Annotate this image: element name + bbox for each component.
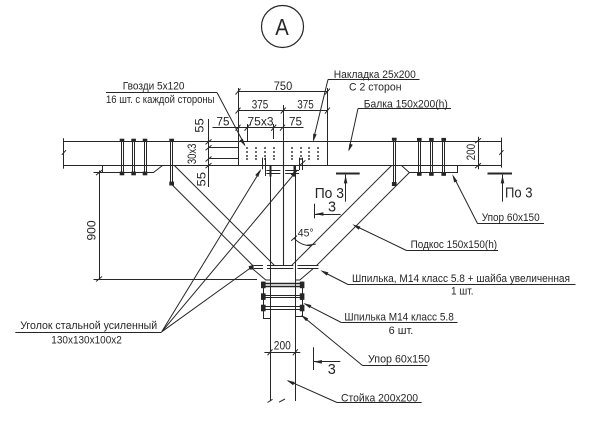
label beam arrow: [349, 144, 353, 152]
extension line at 247: [247, 124, 249, 141]
extension line at 238: [238, 88, 240, 141]
label beam underline: [358, 108, 451, 110]
label nails leader: [217, 93, 245, 145]
left beam bolt 2: [131, 139, 136, 176]
label nails arrow: [240, 139, 246, 147]
centre bolt pair left: [263, 158, 266, 176]
section mark Po3 left bar: [336, 173, 360, 175]
svg-text:30х3: 30х3: [185, 143, 199, 164]
45 degree tick at column edge: [291, 236, 297, 241]
dimension 75/75x3/75 line: [213, 125, 304, 131]
plate right edge: [327, 141, 329, 166]
section mark 3 upper arrow: [315, 212, 323, 216]
extension line at 273.7: [273, 124, 275, 139]
column left edge: [270, 166, 272, 401]
dimension 750 line: [236, 89, 330, 95]
label brace underline: [407, 250, 499, 252]
dimension 200 beam right line: [475, 137, 481, 170]
section mark 3 lower arrow: [314, 360, 322, 364]
label stop lower underline: [363, 365, 428, 367]
beam top line: [63, 141, 502, 143]
stud 2: [261, 293, 304, 300]
label studs underline: [341, 322, 457, 324]
steel angle horizontal leg right: [285, 171, 299, 174]
section mark 3 upper stem: [314, 204, 316, 219]
label brace leader: [355, 226, 407, 251]
beam right end line: [501, 138, 503, 168]
left pad slant: [253, 269, 271, 280]
45 degree tick at brace edge: [307, 244, 316, 245]
label column leader: [288, 381, 337, 403]
stud 1: [261, 282, 304, 289]
svg-text:Уголок стальной усиленный: Уголок стальной усиленный: [20, 320, 157, 332]
svg-text:Шпилька М14 класс 5.8: Шпилька М14 класс 5.8: [344, 311, 453, 323]
label stop lower arrow: [301, 315, 309, 322]
label stud washer leader: [323, 272, 349, 285]
svg-text:А: А: [275, 14, 289, 40]
label steel angle leader 2: [162, 171, 297, 332]
svg-text:200: 200: [464, 144, 478, 161]
extension line at 327: [327, 88, 329, 141]
section mark Po3 left arrow: [344, 175, 348, 183]
section mark Po3 right arrow: [501, 175, 505, 183]
label nails underline: [106, 92, 217, 94]
svg-text:Шпилька, М14 класс 5.8 + шайба: Шпилька, М14 класс 5.8 + шайба увеличенн…: [352, 273, 570, 285]
column right edge: [295, 166, 297, 401]
left beam bolt 3: [143, 139, 148, 176]
dimension 200 column line: [264, 349, 300, 355]
svg-text:Подкос 150х150(h): Подкос 150х150(h): [411, 239, 498, 251]
svg-text:75: 75: [217, 115, 230, 129]
label stud washer arrow: [320, 270, 328, 275]
section mark 3 lower line: [313, 361, 340, 363]
nails group right: [291, 147, 319, 160]
steel angle horizontal leg left: [266, 171, 280, 174]
label plate underline: [328, 79, 420, 81]
dimension 900 line: [94, 170, 258, 281]
svg-text:75х3: 75х3: [248, 115, 274, 129]
left stop block under beam: [103, 166, 163, 173]
label beam leader: [349, 109, 358, 151]
svg-text:6 шт.: 6 шт.: [389, 325, 414, 337]
svg-text:55: 55: [194, 172, 208, 187]
svg-text:130х130х100х2: 130х130х100х2: [51, 334, 122, 346]
stop angle line on column (lower): [254, 268, 319, 270]
beam bottom line: [63, 165, 502, 167]
centre bolt slash right: [300, 160, 305, 165]
svg-text:900: 900: [85, 220, 99, 240]
svg-text:3: 3: [328, 200, 336, 216]
svg-text:375: 375: [252, 97, 269, 111]
svg-text:16 шт. с каждой стороны: 16 шт. с каждой стороны: [106, 94, 215, 106]
label stud washer underline: [348, 284, 576, 286]
beam right break slash: [499, 150, 503, 155]
label studs leader: [306, 304, 342, 322]
label stop upper arrow: [452, 174, 457, 182]
svg-text:45°: 45°: [298, 228, 314, 240]
left beam bolt 1: [120, 139, 125, 176]
label plate arrow: [313, 134, 317, 142]
svg-text:750: 750: [274, 79, 293, 93]
nails group left: [246, 147, 275, 160]
label steel angle arrow 3: [249, 265, 254, 270]
vertical dims 55/30x3/55 line: [206, 119, 239, 187]
section mark Po3 right stem: [502, 175, 504, 202]
label brace arrow: [352, 224, 360, 229]
plate left edge: [238, 141, 240, 166]
steel angle vertical leg right of column top: [294, 166, 296, 177]
label column underline: [337, 402, 422, 404]
svg-text:200: 200: [274, 339, 291, 353]
left brace inner edge: [175, 166, 275, 266]
svg-text:По 3: По 3: [505, 185, 533, 201]
label stop upper underline: [478, 223, 545, 225]
right brace outer edge: [316, 173, 409, 266]
label plate leader: [313, 80, 328, 141]
svg-text:75: 75: [289, 115, 302, 129]
centre bolt pair right: [300, 158, 303, 170]
left brace top bolt: [169, 139, 174, 186]
section mark Po3 left stem: [345, 175, 347, 202]
label column arrow: [287, 380, 295, 385]
left stud plate: [264, 282, 271, 319]
svg-text:1 шт.: 1 шт.: [451, 285, 474, 297]
right pad slant: [296, 269, 314, 280]
svg-text:Упор 60х150: Упор 60х150: [482, 212, 540, 224]
label stop upper leader: [454, 177, 478, 224]
extension line at 283: [283, 105, 285, 141]
right stud plate: [296, 282, 303, 317]
stop angle line on column (upper): [254, 265, 319, 267]
svg-text:3: 3: [328, 362, 336, 378]
stud 3: [261, 305, 304, 312]
right stop block under beam: [402, 166, 458, 173]
dimension 375-375 line: [236, 108, 330, 114]
label steel angle arrow 1: [255, 169, 261, 177]
label studs arrow: [303, 303, 311, 308]
section mark 3 lower stem: [313, 347, 315, 370]
beam left break slash: [62, 150, 66, 155]
label steel angle leader 3: [162, 267, 253, 332]
right brace inner edge: [291, 166, 391, 266]
svg-text:375: 375: [297, 97, 314, 111]
left brace outer edge: [172, 185, 253, 266]
45 degree arc: [294, 238, 312, 246]
right beam bolt 1: [417, 138, 422, 176]
section mark Po3 right bar: [488, 173, 513, 175]
label steel angle underline: [15, 332, 161, 334]
right beam bolt 2: [429, 138, 434, 176]
label steel angle leader 1: [162, 171, 261, 332]
column break slash: [268, 399, 273, 402]
steel angle vertical leg left of column top: [270, 166, 272, 177]
beam splice centre line: [283, 141, 285, 266]
svg-text:С 2 сторон: С 2 сторон: [349, 82, 402, 94]
svg-text:Гвозди 5х120: Гвозди 5х120: [123, 81, 185, 93]
svg-text:Упор 60х150: Упор 60х150: [368, 353, 430, 365]
node A detail mark circle: [262, 6, 304, 48]
beam left end line: [63, 138, 65, 168]
svg-text:55: 55: [192, 118, 206, 133]
right beam bolt 3: [441, 138, 446, 176]
right brace top bolt: [392, 138, 397, 186]
label steel angle arrow 2: [291, 169, 298, 176]
label stop lower leader: [303, 316, 363, 365]
section mark 3 upper line: [315, 214, 341, 216]
